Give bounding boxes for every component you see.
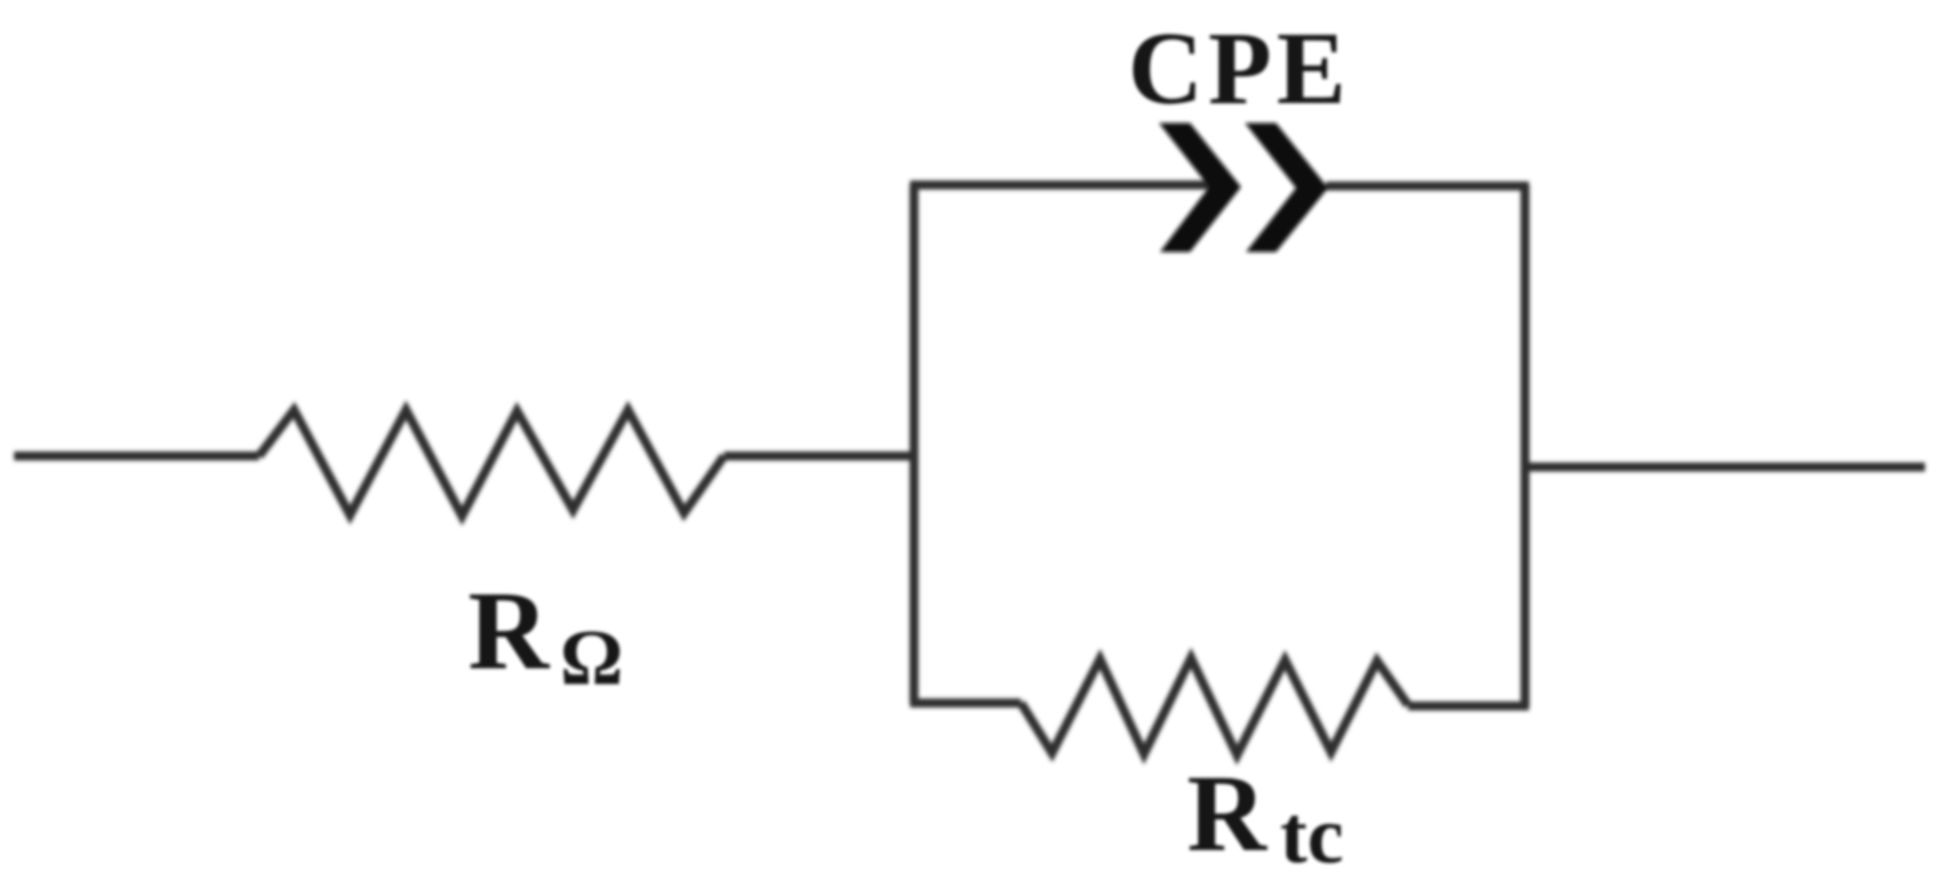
svg-text:tc: tc	[1280, 789, 1344, 880]
svg-text:R: R	[468, 569, 550, 693]
label CPE	[1128, 11, 1351, 126]
svg-text:R: R	[1187, 752, 1268, 874]
svg-text:CPE: CPE	[1128, 11, 1351, 126]
capacitor CPE	[1159, 123, 1328, 252]
resistor R_ohm	[259, 410, 724, 516]
wire	[724, 452, 914, 461]
resistor R_tc	[1021, 658, 1408, 755]
svg-text:Ω: Ω	[560, 615, 623, 702]
wire	[1521, 185, 1530, 707]
wire	[1525, 463, 1925, 472]
wire	[910, 181, 1215, 190]
wire	[910, 699, 1021, 708]
label R_ohm	[468, 569, 623, 702]
wire	[910, 185, 919, 703]
wire	[14, 452, 259, 461]
wire	[1326, 182, 1529, 191]
label R_tc	[1187, 752, 1344, 880]
wire	[1408, 702, 1529, 711]
